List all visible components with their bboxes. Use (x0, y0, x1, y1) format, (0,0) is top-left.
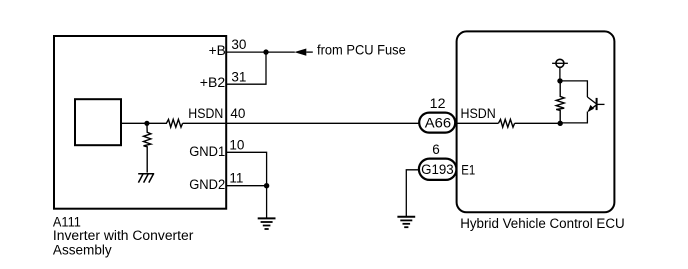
svg-text:12: 12 (430, 96, 446, 111)
connector G193 oval (419, 159, 457, 180)
svg-text:Hybrid Vehicle Control ECU: Hybrid Vehicle Control ECU (460, 216, 625, 231)
wire HSDN from R1 through pin 40 to connector A66 (183, 122, 420, 124)
node N1 junction dot (144, 121, 149, 126)
node N4 junction dot (557, 78, 562, 83)
wire pin 30 to PCU fuse arrow (226, 51, 295, 53)
wire from node N2 down to pin 31 (226, 52, 266, 84)
component box A111 Inverter with Converter Assembly (54, 36, 226, 209)
transistor Q1 collector lead (587, 97, 596, 104)
power terminal T1 (circle) (556, 59, 564, 67)
svg-text:6: 6 (432, 142, 440, 157)
transistor Q1 base stub (597, 103, 605, 105)
svg-text:A66: A66 (425, 116, 451, 131)
svg-text:HSDN: HSDN (188, 106, 223, 121)
wire from R3 to node N5 (515, 122, 561, 124)
svg-text:from PCU Fuse: from PCU Fuse (317, 42, 406, 58)
wire pin 10 (226, 152, 266, 185)
component box Hybrid Vehicle Control ECU (457, 31, 615, 212)
power terminal T1 crossbar (552, 62, 568, 64)
svg-text:10: 10 (229, 137, 244, 152)
svg-text:+B: +B (209, 43, 226, 58)
transistor Q1 base bar (596, 98, 598, 110)
wire collector branch (560, 81, 587, 97)
svg-text:GND2: GND2 (189, 177, 225, 192)
resistor R1 (horizontal, inside A111) (147, 119, 183, 127)
transistor Q1 emitter lead with arrow (588, 105, 596, 112)
svg-text:HSDN: HSDN (461, 106, 496, 121)
internal block (driver) inside A111 (75, 99, 121, 145)
wire from internal block to node N1 (121, 122, 147, 124)
svg-text:E1: E1 (461, 162, 475, 177)
resistor R3 (horizontal, inside ECU) (498, 119, 514, 127)
svg-text:40: 40 (230, 106, 245, 121)
arrowhead from PCU Fuse (294, 49, 306, 56)
arrow tail stub (306, 51, 313, 53)
node N5 junction dot (558, 121, 563, 126)
svg-text:+B2: +B2 (200, 75, 225, 90)
resistor R4 (vertical, inside ECU) (556, 81, 564, 123)
resistor R2 (vertical, pull-down inside A111) (144, 123, 151, 172)
wire emitter branch to node N5 (560, 112, 587, 123)
svg-text:Assembly: Assembly (53, 242, 112, 257)
wire from G193 to ground G3 (406, 170, 419, 216)
chassis ground G1 (inside A111) (138, 174, 154, 183)
svg-text:30: 30 (231, 37, 246, 52)
wire from A66 into ECU (455, 122, 498, 124)
svg-text:Inverter with Converter: Inverter with Converter (53, 228, 194, 243)
svg-text:G193: G193 (421, 162, 454, 177)
connector A66 oval (419, 113, 455, 133)
svg-text:GND1: GND1 (189, 144, 225, 159)
earth ground G2 (258, 218, 276, 229)
svg-text:11: 11 (229, 171, 243, 186)
wire pin 11 (226, 185, 266, 187)
node N3 junction dot GND (264, 183, 269, 188)
wire from terminal T1 to node N4 (559, 68, 561, 81)
earth ground G3 (397, 217, 415, 227)
wire from node N3 to ground G2 (266, 186, 268, 218)
svg-text:31: 31 (231, 69, 246, 84)
node N2 junction dot on +B wire (263, 49, 268, 54)
